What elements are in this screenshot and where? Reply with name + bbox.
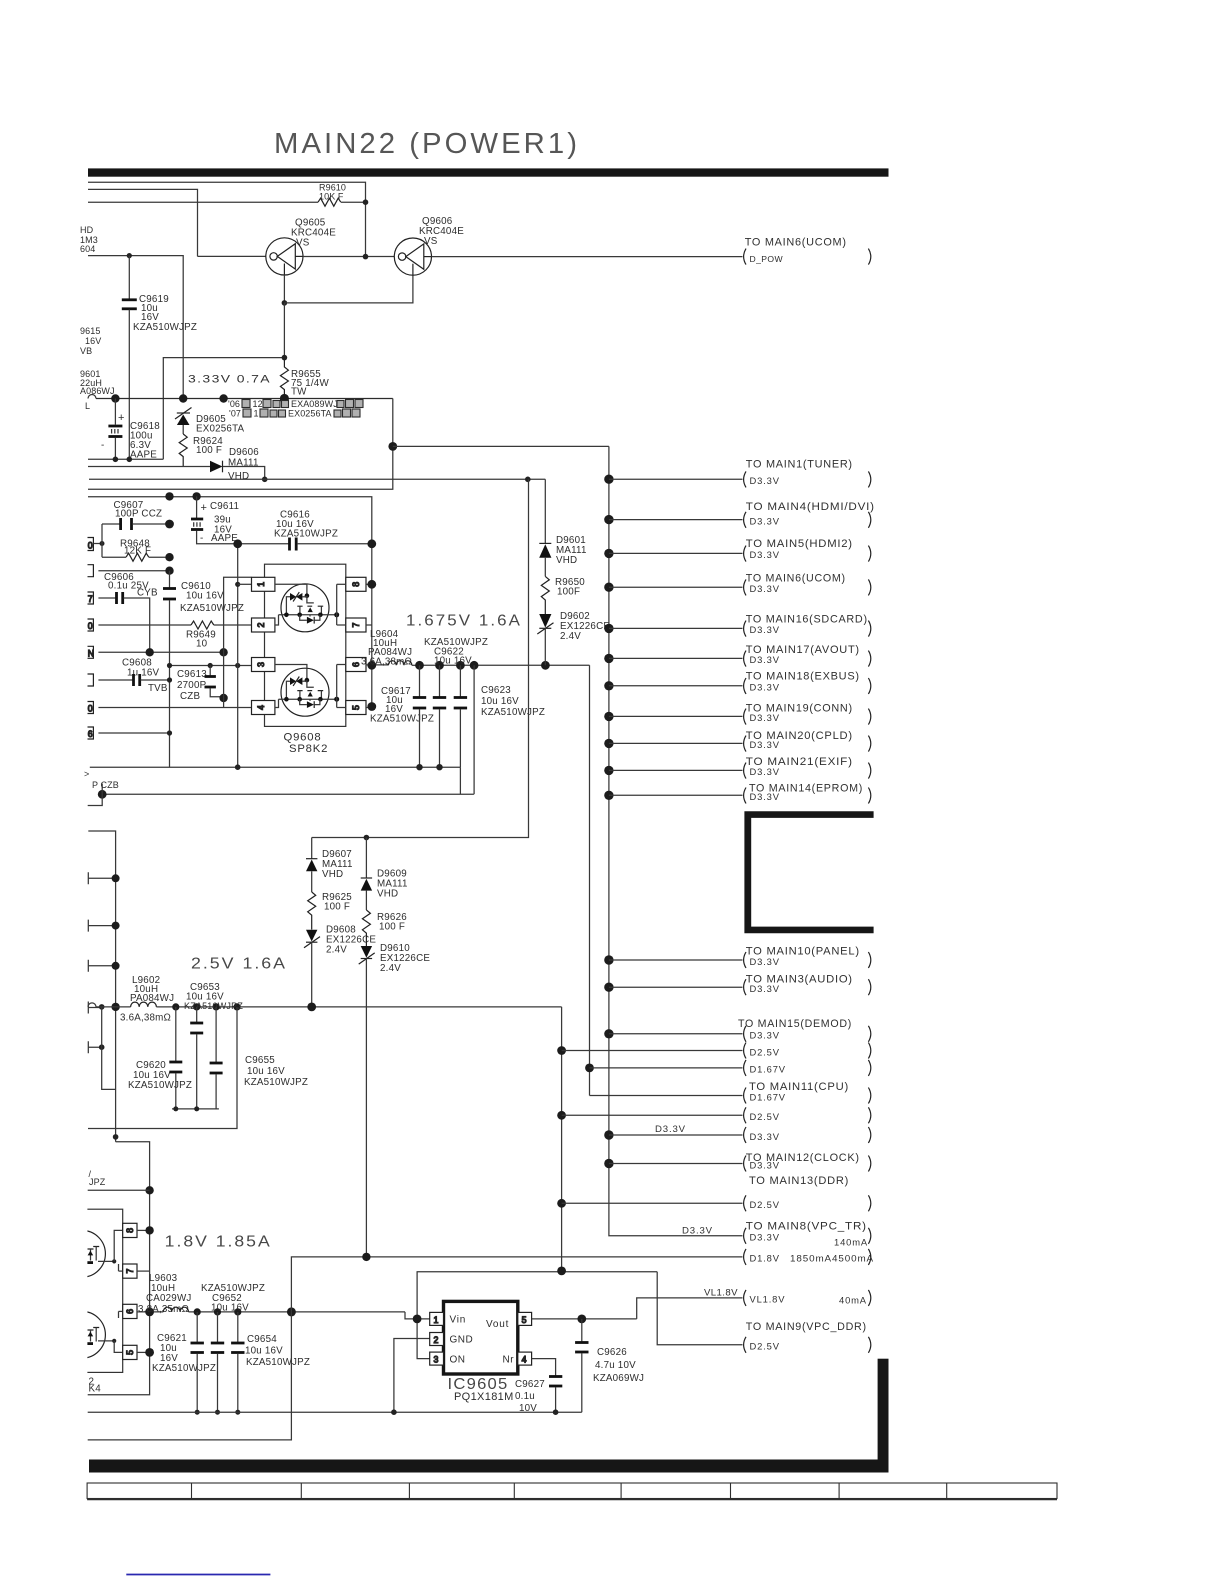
node bus C9655 [213,1003,220,1010]
svg-text:D1.8V: D1.8V [750,1253,780,1264]
wire VL1.8V riser [637,1298,743,1319]
capacitor C9626 [575,1319,644,1412]
node pin6 [145,1308,154,1317]
svg-text:N: N [88,648,94,658]
VPC_TR D3.3V [682,1226,871,1248]
wire 1.8V bus [189,1311,406,1313]
connector VL1.8V [704,1288,871,1306]
wire sense drop [473,665,475,794]
node pin5 [145,1348,154,1357]
svg-text:D3.3V: D3.3V [750,766,780,777]
svg-text:CZB: CZB [180,691,200,702]
svg-text:8: 8 [351,582,361,587]
node input rail pin1 [235,582,240,587]
svg-text:10u 16V: 10u 16V [245,1346,283,1357]
svg-text:D2.5V: D2.5V [750,1199,780,1210]
FET cell lower (cut) [59,1311,123,1358]
svg-text:6: 6 [351,662,361,667]
capacitor C9653 [184,982,243,1109]
resistor R9610 [318,198,341,206]
pin stub row1 [88,538,103,551]
svg-text:D3.3V: D3.3V [750,739,780,750]
wire D9606 cathode to 3.3V rail [223,467,265,480]
node bus D9602 [541,661,550,670]
svg-text:KZA069WJ: KZA069WJ [593,1373,644,1384]
pin tick row e [88,1041,104,1053]
svg-text:D3.3V: D3.3V [750,654,780,665]
pin stub row3 [88,592,94,604]
pin 8 box [346,577,366,591]
node bus gate line [219,394,227,402]
wire loop lower [88,399,393,490]
diode D9607 [306,838,353,893]
svg-text:CA029WJ: CA029WJ [146,1293,192,1304]
svg-text:GND: GND [450,1335,474,1346]
node rail A drop [363,254,369,260]
node 3.3V takeoff [388,442,397,451]
pin 7 box [346,618,366,632]
wire pin5 to rail [366,707,372,709]
svg-text:C9627: C9627 [515,1379,545,1390]
wire R9610 to junction [341,201,366,203]
node C9627 gnd [553,1409,559,1415]
capacitor C9654 [231,1312,310,1412]
svg-text:140mA: 140mA [834,1237,868,1248]
pin tick row b [88,920,119,932]
capacitor C9652 [201,1283,265,1412]
connector TO MAIN6(UCOM) [604,573,871,596]
svg-text:VHD: VHD [377,889,398,900]
node emitter join [282,300,288,306]
svg-text:TO MAIN15(DEMOD): TO MAIN15(DEMOD) [738,1018,852,1030]
node gate rail join [219,648,227,656]
svg-text:C9611: C9611 [210,501,239,512]
transistor Q9606 KRC404E [394,238,431,275]
capacitor C9621 [152,1312,216,1412]
svg-text:10V: 10V [519,1403,537,1414]
wire sense left hook [88,784,103,806]
svg-text:7: 7 [88,594,93,604]
svg-text:100 F: 100 F [196,445,222,456]
node 2.5V bus left b [111,1003,119,1011]
top border thick bar [88,168,889,176]
node bus C9652 [214,1308,221,1315]
svg-text:D1.67V: D1.67V [750,1091,786,1102]
svg-text:1.8V 1.85A: 1.8V 1.85A [165,1234,272,1251]
svg-text:L: L [85,401,90,411]
svg-text:D3.3V: D3.3V [750,791,780,802]
node sense left [98,790,107,799]
pin 2 box [430,1333,444,1346]
svg-text:10u 16V: 10u 16V [247,1066,285,1077]
node on 3.3V rail [262,477,268,483]
wire 1.8V lower loop [88,1312,292,1440]
capacitor C9616 [238,510,372,551]
svg-text:VS: VS [424,236,438,247]
node C9616 right [367,539,376,548]
resistor R9624 [179,434,187,467]
svg-text:2.4V: 2.4V [380,963,401,974]
pin stub row6 [88,674,94,686]
right border thick bar [878,1359,889,1473]
node R9655 top [282,355,288,361]
wire pin1 feed [238,583,252,585]
wire IC gnd drop [394,1339,430,1413]
node R9610/railA junction [363,199,369,205]
regulator IC9605 body [444,1301,518,1374]
node bus C9654 [234,1308,241,1315]
connector TO MAIN10(PANEL) [604,946,871,969]
svg-text:D3.3V: D3.3V [682,1226,713,1237]
svg-text:10u 16V: 10u 16V [186,591,224,602]
svg-text:5: 5 [351,705,361,710]
node C9619 return [127,457,133,463]
capacitor C9607 [102,500,170,530]
node C9613 join [219,694,227,702]
svg-text:-: - [101,440,104,451]
node 2.5V bus left a [99,1004,105,1010]
svg-text:D_POW: D_POW [750,254,784,264]
node split [100,541,105,546]
svg-text:10K F: 10K F [319,192,344,202]
transistor Q9602 SP8K4 block outline (cut) [56,1209,123,1372]
svg-text:100 F: 100 F [379,922,405,933]
svg-text:D3.3V: D3.3V [750,1131,780,1142]
node R9648 out [165,553,173,561]
pin 5 box [123,1345,137,1359]
svg-text:100P CCZ: 100P CCZ [115,509,162,520]
wire D9606 anode line [88,466,210,468]
node bus loop [233,1003,240,1010]
svg-text:1: 1 [256,582,266,587]
wire VPC_DDR branch [657,1272,742,1345]
capacitor C9613 [177,666,224,703]
VPC_TR D1.8V [744,1249,874,1265]
svg-text:C9655: C9655 [245,1055,275,1066]
wire 2.5V bus [88,1003,96,1007]
svg-text:10u 16V: 10u 16V [211,1303,249,1314]
inductor L9603 [138,1273,192,1315]
svg-text:TO MAIN9(VPC_DDR): TO MAIN9(VPC_DDR) [746,1321,867,1333]
transistor Q9602 (dual FET block, cut at left margin) [56,1209,137,1372]
pin 1 box [430,1312,444,1325]
svg-text:VHD: VHD [228,471,249,482]
svg-text:C9626: C9626 [597,1347,627,1358]
svg-text:KZA510WJPZ: KZA510WJPZ [152,1363,216,1374]
node bus C9617 [415,661,424,670]
revision table at page bottom [87,1483,1057,1499]
node bus D9605 [179,394,187,402]
node bus sense [470,661,479,670]
svg-text:+: + [201,502,208,514]
svg-text:D3.3V: D3.3V [750,515,780,526]
svg-text:4.7u 10V: 4.7u 10V [595,1360,636,1371]
resistor R9650 [541,576,549,614]
wire sense line to Q9605 emitter [163,303,284,459]
connector TO MAIN17(AVOUT) [604,644,871,667]
connector TO MAIN16(SDCARD) [604,614,871,637]
pin 1 box [252,577,275,591]
svg-text:12: 12 [253,399,263,409]
svg-text:TVB: TVB [148,683,168,694]
CPU D3.3V [604,1124,871,1143]
svg-text:7: 7 [125,1269,135,1274]
svg-text:ON: ON [450,1355,466,1366]
svg-text:D3.3V: D3.3V [750,1159,780,1170]
svg-text:Vout: Vout [486,1319,509,1330]
svg-text:6: 6 [88,729,93,739]
svg-text:3.33V 0.7A: 3.33V 0.7A [188,374,271,386]
svg-text:3: 3 [434,1355,439,1365]
wire L9604 out [412,664,420,666]
wire rail B [88,189,198,256]
svg-text:KZA510WJPZ: KZA510WJPZ [274,529,338,540]
svg-text:3: 3 [256,662,266,667]
node bus C9620 [172,1003,179,1010]
wire left stub to D9605 branch [88,256,183,399]
node rail 2.5V join [557,1267,566,1276]
diode D9608 zener [304,925,376,1007]
wire pin6 out [366,664,388,666]
svg-text:2700P: 2700P [177,680,207,691]
wire pin5 [137,1351,150,1353]
svg-text:VHD: VHD [322,869,343,880]
bottom border thick bar [89,1460,889,1473]
DEMOD D1.67V [585,1060,871,1076]
wire left aux vertical [102,1007,116,1090]
svg-text:D3.3V: D3.3V [750,983,780,994]
svg-text:5: 5 [522,1315,527,1325]
node D9610 end [362,1253,370,1261]
node section rail C9611 [192,492,200,500]
svg-text:KZA510WJPZ: KZA510WJPZ [246,1357,310,1368]
node C9616 left [233,539,242,548]
pin 6 box [346,658,366,672]
wire Vout line [532,1318,637,1320]
svg-text:D2.5V: D2.5V [750,1111,780,1122]
inductor L9604 [361,629,412,668]
svg-text:CYB: CYB [137,588,158,599]
svg-text:'06: '06 [228,399,240,409]
svg-text:C9654: C9654 [247,1334,277,1345]
capacitor C9611 electrolytic [191,496,239,544]
svg-text:EXA089WJ: EXA089WJ [291,399,338,409]
node pin3 a [167,663,172,668]
wire pin7 [137,1270,150,1272]
FET cell upper (cut) [59,1230,123,1277]
FET cell lower [275,665,346,717]
svg-text:604: 604 [80,244,95,254]
node C9654 gnd [235,1410,240,1415]
wire 3.33V bus [88,395,96,399]
pin stub row2 [88,565,170,577]
connector TO MAIN14(EPROM) [604,783,871,804]
svg-text:D3.3V: D3.3V [750,624,780,635]
svg-text:VB: VB [80,346,92,356]
connector TO MAIN5(HDMI2) [604,538,871,562]
wire 3.3V feed to connector bus [393,445,609,447]
CLOCK D3.3V [604,1156,871,1172]
pin stub row8 [88,727,170,739]
svg-text:KZA510WJPZ: KZA510WJPZ [244,1077,308,1088]
svg-text:>: > [84,769,89,779]
DDR D2.5V [557,1195,871,1211]
svg-text:+: + [118,412,125,424]
svg-text:D1.67V: D1.67V [750,1064,786,1075]
svg-text:1: 1 [434,1315,439,1325]
node pin1 feed [413,1315,422,1324]
wire pin8 to rail [366,583,372,585]
svg-text:16V: 16V [85,336,101,346]
svg-text:KZA510WJPZ: KZA510WJPZ [481,707,545,718]
wire top rail A [88,182,366,256]
capacitor C9627 [515,1377,562,1415]
CPU D2.5V [557,1107,871,1123]
capacitor C9622 [424,637,488,767]
wire 2.5V bus main [156,1006,561,1008]
pin 4 box [252,701,275,715]
svg-text:TW: TW [291,387,307,398]
left margin mask [0,0,87,1584]
connector TO MAIN9(VPC_DDR) [744,1321,871,1353]
wire 2.5V top rail [417,1271,658,1273]
note kanji text line2 [229,409,360,419]
svg-text:C9613: C9613 [177,669,207,680]
capacitor C9623 [454,665,545,767]
wire 1.8V takeoff loop [291,1257,742,1312]
svg-text:Nr: Nr [503,1355,515,1366]
wire emitter bus to Q9606 [284,275,413,303]
svg-text:KZA510WJPZ: KZA510WJPZ [128,1080,192,1091]
wire 2.5V feed down [561,1007,563,1271]
svg-text:EX0256TA: EX0256TA [196,424,245,435]
svg-text:D3.3V: D3.3V [750,583,780,594]
svg-text:HD: HD [80,225,94,235]
svg-text:P CZB: P CZB [92,780,119,790]
CPU D1.67V [590,1088,871,1104]
svg-text:VL1.8V: VL1.8V [750,1294,786,1305]
node bus C9622 [435,661,444,670]
svg-text:0: 0 [88,621,93,631]
capacitor C9606 [98,572,158,652]
node C9618 return [113,457,119,463]
svg-text:'07: '07 [229,409,241,419]
inductor L9602 [120,975,174,1024]
node bus takeoff [287,1307,296,1316]
connector TO MAIN3(AUDIO) [604,974,871,996]
pin 7 box [123,1264,137,1278]
wire 3.3V drop to clamp chains [312,479,529,837]
wire Nr out [532,1359,556,1376]
wire R9610 rail [88,201,318,203]
wire cap return bus [172,1108,219,1110]
svg-text:TO MAIN4(HDMI/DVI): TO MAIN4(HDMI/DVI) [746,501,875,513]
pin 4 box [518,1352,532,1365]
pin tick row d [88,1002,101,1014]
svg-text:D3.3V: D3.3V [655,1124,686,1135]
node row2 [165,567,173,575]
blue reference line bottom left [126,1574,270,1576]
svg-text:TO MAIN18(EXBUS): TO MAIN18(EXBUS) [746,670,860,682]
svg-text:10u 16V: 10u 16V [481,696,519,707]
connector TO MAIN19(CONN) [604,702,871,724]
svg-text:C9623: C9623 [481,685,511,696]
svg-text:PQ1X181M: PQ1X181M [454,1391,514,1403]
pin 8 box [123,1223,137,1237]
node C9607 out [165,520,174,529]
diode D9602 zener [537,611,610,665]
pin 3 box [252,658,275,672]
svg-text:6: 6 [125,1309,135,1314]
wire section top rail [88,497,372,707]
wire Q9605 collector to Q9606 [303,256,395,258]
node bus C9623 [456,661,465,670]
resistor R9649 [186,621,252,650]
pin stub row5 [88,646,224,658]
node input rail bottom [235,764,241,770]
svg-text:A086WJ: A086WJ [80,386,115,396]
wire left feeder vertical [88,831,115,1142]
capacitor C9608 [98,658,169,695]
resistor R9648 [102,539,170,562]
svg-text:8: 8 [125,1228,135,1233]
node C9619 top [127,253,132,258]
node pin3 b [208,663,213,668]
wire sense return line [102,793,474,795]
svg-text:KZA510WJPZ: KZA510WJPZ [370,714,434,725]
svg-text:D3.3V: D3.3V [750,475,780,486]
resistor R9626 [362,910,370,946]
wire 1.675V bus [420,664,590,666]
svg-text:KZA510WJPZ: KZA510WJPZ [180,603,244,614]
node C9608 join [167,677,172,682]
connector TO MAIN1(TUNER) [604,459,871,488]
svg-text:TO MAIN6(UCOM): TO MAIN6(UCOM) [745,236,847,248]
svg-text:D3.3V: D3.3V [750,1030,780,1041]
wire pin7 to rail [366,624,372,626]
svg-text:4: 4 [256,705,266,710]
pin tick row c [88,960,119,972]
svg-text:1850mA4500mA: 1850mA4500mA [790,1253,874,1264]
connector TO MAIN20(CPLD) [604,730,871,752]
wire Q9606 to UCOM connector [432,256,743,258]
svg-text:TO MAIN1(TUNER): TO MAIN1(TUNER) [746,459,853,471]
diode D9606 [210,447,259,482]
wire Q9605 emitter down [283,275,285,303]
diode D9605 zener [175,408,245,435]
svg-text:VHD: VHD [556,555,577,566]
node IC gnd [391,1409,397,1415]
svg-text:0.1u: 0.1u [515,1391,535,1402]
wire split vertical [101,524,103,557]
transistor Q9608 SP8K2 block outline [265,564,346,726]
node return b [194,1106,199,1111]
node pin8 [145,1226,153,1234]
capacitor C9617 [370,665,434,767]
svg-text:D3.3V: D3.3V [750,682,780,693]
svg-text:D3.3V: D3.3V [750,956,780,967]
svg-text:2.4V: 2.4V [560,631,581,642]
svg-text:EX0256TA: EX0256TA [288,409,332,419]
svg-text:D2.5V: D2.5V [750,1046,780,1057]
svg-text:D9606: D9606 [229,447,259,458]
pin 5 box [518,1312,532,1325]
node rail to lower column [525,477,531,483]
thick bracket frame (right mid cut-out) [744,811,873,933]
node section rail C9610 [165,492,173,500]
svg-text:VL1.8V: VL1.8V [704,1288,738,1299]
capacitor C9620 [128,1007,192,1109]
